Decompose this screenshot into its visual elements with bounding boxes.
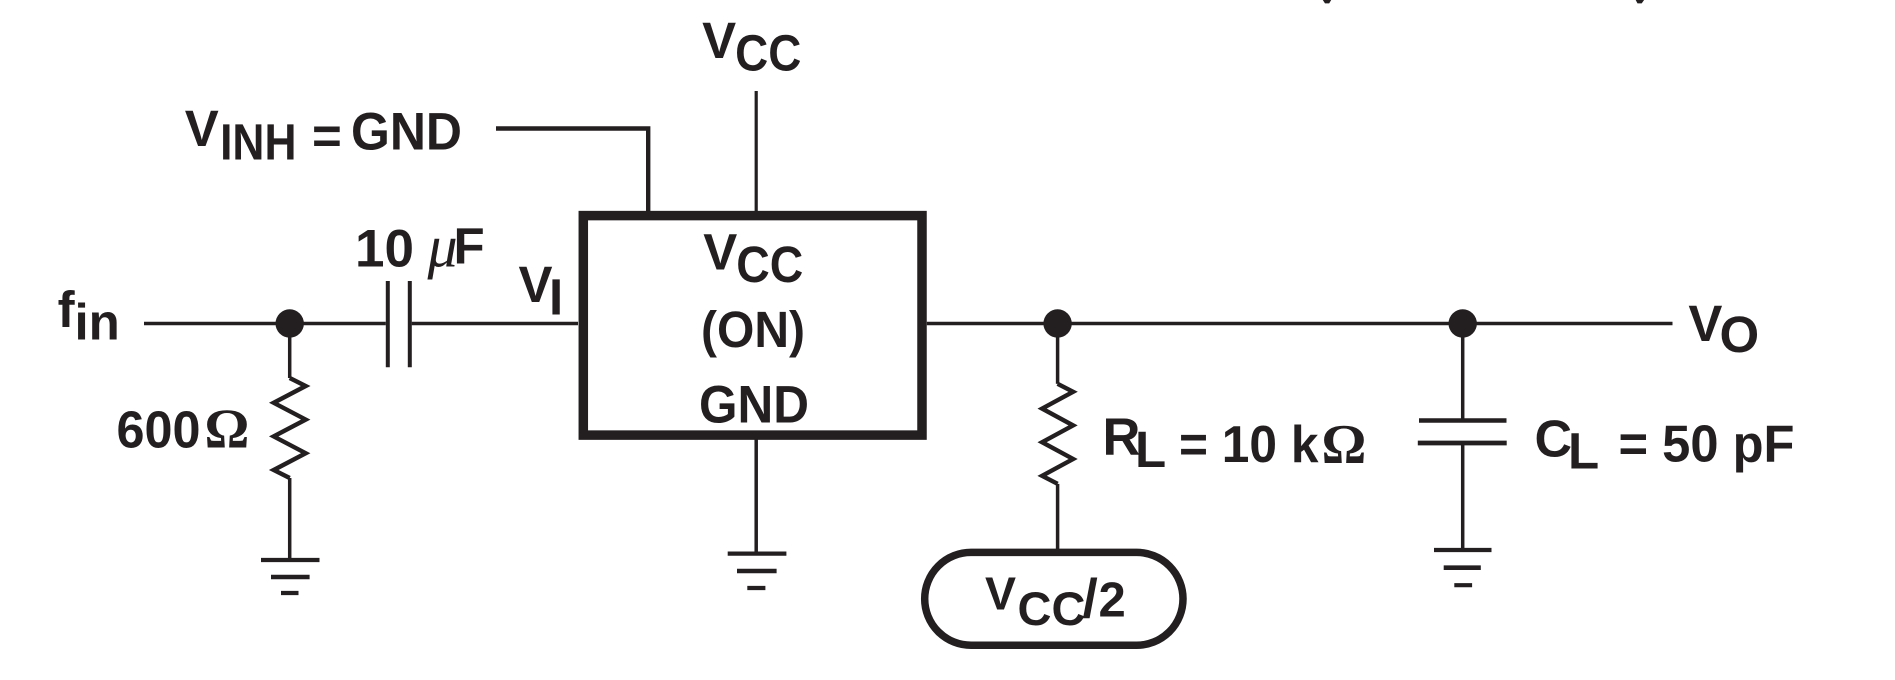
svg-text:I: I (549, 268, 563, 325)
svg-text:600: 600 (117, 402, 201, 460)
svg-text:=: = (312, 108, 342, 165)
svg-text:GND: GND (351, 103, 462, 162)
svg-text:V: V (702, 12, 736, 69)
svg-text:C: C (1535, 410, 1573, 468)
svg-text:L: L (1135, 421, 1166, 478)
svg-text:2: 2 (1099, 574, 1126, 628)
svg-text:F: F (454, 218, 485, 275)
svg-text:(ON): (ON) (701, 301, 805, 358)
svg-text:INH: INH (220, 114, 296, 171)
svg-text:CC: CC (736, 236, 803, 293)
svg-text:V: V (703, 223, 737, 280)
svg-text:V: V (185, 100, 219, 157)
svg-text:GND: GND (699, 375, 809, 434)
svg-text:O: O (1720, 306, 1760, 363)
svg-text:= 50 pF: = 50 pF (1619, 415, 1795, 473)
svg-text:in: in (75, 294, 120, 351)
svg-text:10: 10 (355, 220, 414, 279)
svg-text:CC: CC (1018, 582, 1086, 635)
svg-text:L: L (1568, 423, 1599, 480)
svg-text:= 10 k: = 10 k (1179, 416, 1319, 474)
svg-text:CC: CC (735, 25, 801, 82)
svg-text:V: V (519, 256, 553, 313)
svg-text:Ω: Ω (205, 399, 250, 461)
svg-text:Ω: Ω (1322, 414, 1367, 476)
svg-text:f: f (58, 281, 76, 338)
svg-text:V: V (1688, 295, 1722, 352)
svg-text:V: V (985, 567, 1016, 619)
svg-text:/: / (1083, 567, 1098, 629)
